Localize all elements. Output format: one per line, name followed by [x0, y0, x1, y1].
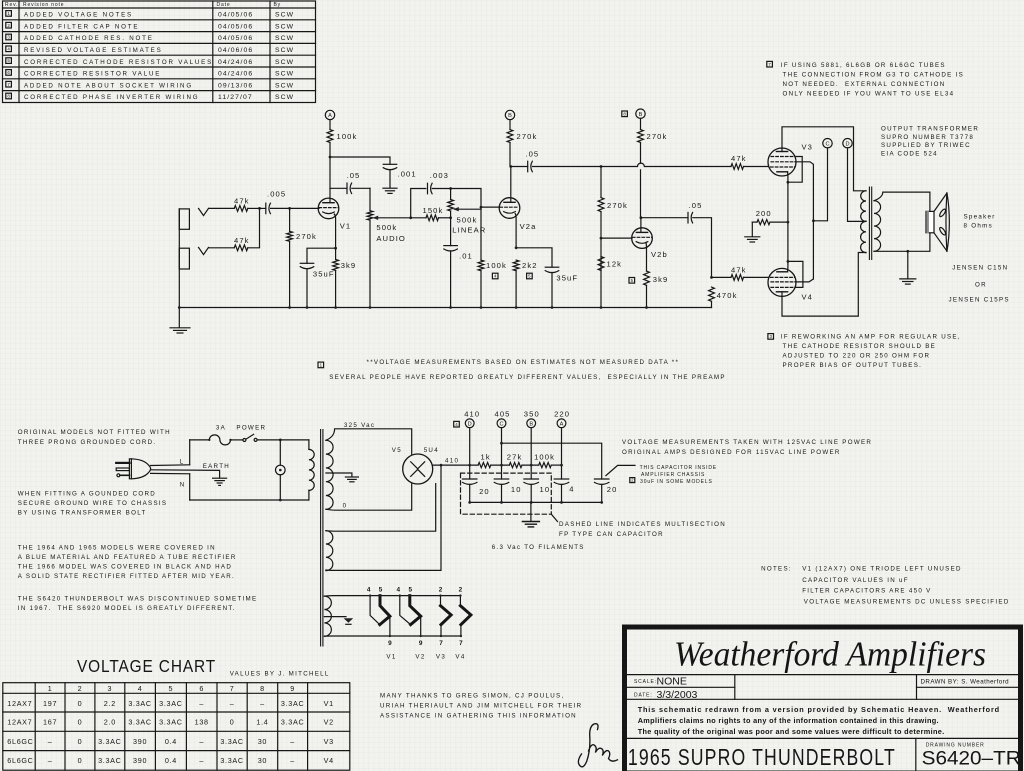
svg-text:500k: 500k: [376, 223, 397, 232]
svg-text:JENSEN C15N: JENSEN C15N: [952, 264, 1008, 271]
earth ground symbol: [213, 478, 227, 485]
svg-text:–: –: [230, 699, 235, 708]
resistor 200 (output cathode bias): [745, 209, 788, 242]
svg-text:N: N: [180, 481, 186, 488]
svg-text:3: 3: [107, 684, 112, 693]
capacitor 20uF (D): [462, 479, 489, 502]
svg-text:04/24/06: 04/24/06: [218, 71, 253, 78]
svg-text:410: 410: [464, 410, 480, 419]
wire V4 G2 jog: [795, 279, 813, 282]
6.3V center tap ground: [324, 616, 346, 618]
svg-text:3.3AC: 3.3AC: [128, 718, 151, 727]
capacitor 10uF (C): [494, 479, 521, 502]
svg-text:ADDED CATHODE RES. NOTE: ADDED CATHODE RES. NOTE: [24, 35, 154, 42]
svg-text:0: 0: [78, 699, 83, 708]
svg-text:THE 1964 AND 1965 MODELS WERE: THE 1964 AND 1965 MODELS WERE COVERED IN: [18, 545, 216, 552]
wire to 5V winding bottom: [326, 465, 441, 570]
svg-text:SCW: SCW: [275, 35, 294, 42]
svg-text:OR: OR: [975, 281, 987, 288]
svg-text:V3: V3: [324, 737, 334, 746]
heater V2 (pins 4,5,9): [400, 596, 411, 625]
wire to V1 grid: [290, 207, 319, 209]
svg-text:3.3AC: 3.3AC: [159, 718, 182, 727]
capacitor .003: [428, 171, 451, 194]
svg-text:3.3AC: 3.3AC: [98, 737, 121, 746]
ground (speaker return): [907, 251, 909, 278]
svg-text:SCW: SCW: [275, 23, 294, 30]
revision marker 4: [454, 421, 460, 427]
wire cord earth: [151, 470, 220, 478]
svg-text:2: 2: [78, 684, 83, 693]
svg-text:8 Ohms: 8 Ohms: [964, 223, 993, 230]
svg-text:270k: 270k: [296, 232, 317, 241]
svg-text:SCW: SCW: [275, 47, 294, 54]
svg-text:150k: 150k: [423, 206, 444, 215]
tube V2b (12AX7 triode): [632, 228, 668, 259]
svg-text:0: 0: [78, 718, 83, 727]
svg-text:V4: V4: [455, 653, 465, 660]
resistor 47k (V4 grid stopper): [712, 266, 769, 281]
svg-text:–: –: [290, 756, 295, 765]
svg-text:V2a: V2a: [520, 222, 537, 231]
resistor 27k: [507, 453, 523, 468]
svg-text:MANY THANKS TO GREG SIMON, CJ: MANY THANKS TO GREG SIMON, CJ POULUS,: [380, 692, 564, 699]
svg-text:This schematic redrawn from a: This schematic redrawn from a version pr…: [638, 705, 1000, 714]
wire V4 cathode: [787, 261, 789, 271]
svg-text:EARTH: EARTH: [203, 463, 230, 470]
speaker driver: [926, 211, 934, 232]
svg-text:47k: 47k: [731, 266, 747, 275]
svg-text:VOLTAGE CHART: VOLTAGE CHART: [77, 656, 216, 676]
svg-text:200: 200: [756, 209, 772, 218]
svg-text:6.3 Vac TO FILAMENTS: 6.3 Vac TO FILAMENTS: [492, 544, 585, 551]
svg-text:0: 0: [78, 756, 83, 765]
wire V3 cathode: [787, 172, 789, 182]
capacitor 35uF (V1 cathode): [300, 263, 334, 307]
svg-text:D: D: [845, 141, 849, 147]
power transformer HV secondary 325Vac: [326, 440, 333, 509]
ground bus (bottom rail): [179, 307, 711, 309]
svg-text:POWER: POWER: [236, 424, 266, 431]
wire screen rail down: [812, 221, 814, 279]
capacitor .05 (V2a coupling): [511, 150, 601, 172]
wire C to chassis cap: [502, 443, 602, 479]
svg-text:350: 350: [524, 410, 540, 419]
svg-text:3/3/2003: 3/3/2003: [657, 689, 698, 701]
wire 325Vac to rectifier plate: [326, 429, 412, 454]
resistor 100k: [534, 453, 555, 468]
svg-text:2: 2: [459, 587, 463, 594]
capacitor .001: [383, 164, 416, 187]
svg-text:CORRECTED CATHODE RESISTOR VAL: CORRECTED CATHODE RESISTOR VALUES: [24, 59, 213, 66]
svg-text:CAPACITOR VALUES IN uF: CAPACITOR VALUES IN uF: [802, 577, 909, 584]
svg-text:11/27/07: 11/27/07: [218, 94, 253, 101]
svg-text:325 Vac: 325 Vac: [344, 422, 375, 429]
wire input 1: [209, 207, 235, 209]
resistor 47k (input 1): [234, 197, 250, 212]
svg-text:410: 410: [445, 457, 459, 464]
heater V1 (pins 4,5,9): [370, 596, 380, 625]
wire V1 cathode: [334, 214, 335, 248]
heater V4 (pins 2,7): [459, 596, 461, 606]
svg-text:8: 8: [260, 684, 265, 693]
output transformer core: [869, 187, 871, 260]
svg-text:27k: 27k: [507, 453, 523, 462]
resistor 2k2 (V2a cathode) [5]: [513, 260, 537, 307]
power transformer core: [321, 430, 323, 646]
svg-text:SCW: SCW: [275, 12, 294, 19]
svg-text:Date: Date: [217, 2, 231, 8]
svg-text:VALUES BY J. MITCHELL: VALUES BY J. MITCHELL: [230, 671, 330, 678]
svg-text:20: 20: [607, 485, 618, 494]
svg-text:B: B: [508, 113, 512, 119]
wire V4 plate to transformer bottom: [782, 253, 866, 317]
note 1 (voltage measurements): [318, 362, 324, 368]
svg-text:A: A: [328, 113, 332, 119]
svg-text:THE CATHODE RESISTOR SHOULD BE: THE CATHODE RESISTOR SHOULD BE: [783, 343, 937, 350]
svg-text:B: B: [639, 112, 643, 118]
capacitor 35uF (V2a cathode): [516, 248, 578, 308]
svg-text:0.4: 0.4: [165, 756, 177, 765]
svg-text:6L6GC: 6L6GC: [7, 756, 33, 765]
resistor 150k: [411, 206, 451, 221]
wire to .001: [330, 157, 390, 164]
resistor 100k (V1 plate load): [327, 120, 357, 157]
svg-text:Rev.: Rev.: [5, 2, 18, 8]
svg-text:SCW: SCW: [275, 82, 294, 89]
svg-text:12AX7: 12AX7: [7, 718, 32, 727]
wire chain: [491, 464, 510, 466]
resistor 12k (divider lower): [598, 257, 622, 271]
svg-text:390: 390: [133, 737, 147, 746]
resistor 1k: [478, 453, 491, 468]
svg-text:6L6GC: 6L6GC: [7, 737, 33, 746]
svg-text:12k: 12k: [607, 260, 623, 269]
jack tip contact 2: [199, 247, 209, 254]
filter cap ground rail: [470, 501, 602, 503]
6.3V filament winding: [324, 596, 331, 636]
svg-text:9: 9: [419, 640, 423, 647]
svg-text:DASHED LINE INDICATES MULTISEC: DASHED LINE INDICATES MULTISECTION: [559, 521, 726, 528]
wire V3 plate to transformer top: [782, 127, 866, 191]
svg-text:390: 390: [133, 756, 147, 765]
capacitor 20uF (chassis) [2]: [594, 479, 617, 502]
svg-text:PROPER BIAS OF OUTPUT TUBES.: PROPER BIAS OF OUTPUT TUBES.: [783, 362, 923, 369]
svg-text:.005: .005: [267, 190, 286, 199]
svg-text:0: 0: [343, 502, 348, 509]
note 3 (cathode resistor rework): [768, 334, 774, 340]
svg-text:L: L: [180, 459, 185, 466]
svg-text:CORRECTED PHASE INVERTER WIRIN: CORRECTED PHASE INVERTER WIRING: [24, 94, 199, 101]
svg-text:The quality of the original wa: The quality of the original was poor and…: [638, 727, 945, 736]
resistor 3k9 (V1 cathode): [333, 248, 357, 307]
tube V1 (12AX7 triode): [318, 198, 351, 230]
svg-text:2k2: 2k2: [522, 261, 538, 270]
svg-text:1965 SUPRO THUNDERBOLT: 1965 SUPRO THUNDERBOLT: [628, 744, 896, 770]
svg-text:5: 5: [409, 587, 413, 594]
tube V4 (6L6GC pentode): [768, 268, 813, 301]
svg-text:9: 9: [290, 684, 295, 693]
wire rectifier output 410: [433, 464, 478, 466]
fuse 3A: [190, 439, 210, 441]
potentiometer 500k AUDIO: [367, 188, 411, 307]
wire to junction: [248, 207, 260, 209]
svg-text:DATE:: DATE:: [634, 692, 653, 698]
wire cathode rail: [787, 182, 789, 261]
wire V2a plate: [510, 167, 512, 203]
svg-text:35uF: 35uF: [313, 269, 335, 278]
potentiometer 500k LINEAR: [448, 189, 487, 246]
svg-text:5U4: 5U4: [424, 447, 439, 454]
svg-text:A SOLID STATE RECTIFIER FITTED: A SOLID STATE RECTIFIER FITTED AFTER MID…: [18, 573, 235, 580]
wire chain end: [551, 464, 561, 466]
svg-text:04/24/06: 04/24/06: [218, 59, 253, 66]
callout dashed line note: [551, 514, 557, 521]
wire wiper riser: [411, 189, 426, 218]
node B (V2b plate supply): [636, 109, 645, 118]
svg-text:A: A: [560, 422, 564, 428]
wire secondary top to speaker: [874, 192, 930, 211]
wire mains left verticals: [189, 440, 191, 500]
svg-text:THIS CAPACITOR INSIDE: THIS CAPACITOR INSIDE: [640, 465, 717, 471]
svg-text:NOT NEEDED. EXTERNAL CONNECTI: NOT NEEDED. EXTERNAL CONNECTION: [783, 81, 946, 88]
resistor 3k9 (V2b cathode) [5]: [644, 271, 669, 308]
svg-text:1k: 1k: [481, 453, 491, 462]
svg-text:CORRECTED RESISTOR VALUE: CORRECTED RESISTOR VALUE: [24, 71, 161, 78]
svg-text:.05: .05: [525, 150, 539, 159]
svg-text:SCW: SCW: [275, 59, 294, 66]
svg-text:URIAH THERIAULT AND JIM MITCHE: URIAH THERIAULT AND JIM MITCHELL FOR THE…: [380, 702, 582, 709]
node D (410V supply): [465, 419, 474, 428]
AC plug: [116, 459, 150, 479]
svg-text:4: 4: [367, 587, 371, 594]
svg-text:405: 405: [495, 410, 511, 419]
filament bus top: [324, 595, 460, 598]
output transformer secondary: [874, 201, 881, 252]
svg-text:47k: 47k: [234, 236, 250, 245]
svg-text:By: By: [274, 2, 282, 8]
svg-text:.05: .05: [689, 201, 703, 210]
node C (405V supply): [497, 419, 506, 428]
wire V4 G3-cathode loop: [788, 261, 803, 287]
svg-text:ONLY NEEDED IF YOU WANT TO USE: ONLY NEEDED IF YOU WANT TO USE EL34: [783, 90, 955, 97]
wire V2a out to V3 grid (hop over V2b plate line): [601, 163, 731, 166]
wire V3 G3-cathode loop: [788, 157, 802, 183]
wire input 2: [209, 247, 235, 249]
svg-text:REVISED VOLTAGE ESTIMATES: REVISED VOLTAGE ESTIMATES: [24, 47, 163, 54]
revision marker 8: [622, 111, 628, 117]
wire grid V2a: [481, 206, 500, 208]
svg-text:–: –: [199, 756, 204, 765]
ground (input jacks): [170, 308, 190, 333]
svg-text:VOLTAGE MEASUREMENTS DC UNLESS: VOLTAGE MEASUREMENTS DC UNLESS SPECIFIED: [804, 598, 1010, 605]
heater V3 (pins 2,7): [440, 596, 442, 606]
svg-text:4: 4: [138, 684, 143, 693]
wire chain: [522, 464, 539, 466]
pilot lamp: [279, 440, 281, 465]
svg-text:–: –: [48, 756, 53, 765]
svg-text:IF REWORKING AN AMP FOR REGULA: IF REWORKING AN AMP FOR REGULAR USE,: [781, 333, 961, 340]
wire V2b plate: [640, 218, 642, 233]
resistor 100k (V2a divider) [4]: [478, 260, 507, 307]
wire plate node: [329, 157, 331, 202]
jack tip contact 1: [199, 208, 209, 215]
svg-text:1: 1: [48, 684, 53, 693]
svg-text:–: –: [199, 737, 204, 746]
svg-text:V2: V2: [415, 653, 425, 660]
svg-text:VOLTAGE MEASUREMENTS TAKEN WIT: VOLTAGE MEASUREMENTS TAKEN WITH 125VAC L…: [622, 439, 872, 446]
svg-text:C: C: [825, 141, 829, 147]
node A (220V): [325, 110, 334, 119]
svg-text:3.3AC: 3.3AC: [220, 756, 243, 765]
svg-text:30uF IN SOME MODELS: 30uF IN SOME MODELS: [640, 479, 713, 485]
svg-text:7: 7: [439, 640, 443, 647]
wire mains bottom: [190, 499, 309, 501]
svg-text:5: 5: [379, 587, 383, 594]
svg-text:2.0: 2.0: [104, 718, 116, 727]
svg-text:10: 10: [540, 485, 551, 494]
svg-text:C: C: [499, 422, 503, 428]
HV center tap to ground: [326, 473, 352, 477]
svg-text:ASSISTANCE IN GATHERING THIS I: ASSISTANCE IN GATHERING THIS INFORMATION: [380, 712, 577, 719]
svg-text:THREE PRONG GROUNDED CORD.: THREE PRONG GROUNDED CORD.: [18, 439, 157, 446]
svg-text:FP TYPE CAN CAPACITOR: FP TYPE CAN CAPACITOR: [559, 531, 664, 538]
svg-text:2.2: 2.2: [104, 699, 116, 708]
wire C to screens: [813, 148, 827, 221]
svg-text:A BLUE MATERIAL AND FEATURED A: A BLUE MATERIAL AND FEATURED A TUBE RECT…: [18, 554, 237, 561]
wire input2 up to junction: [248, 208, 260, 247]
svg-text:04/06/06: 04/06/06: [218, 47, 253, 54]
svg-text:V1: V1: [324, 699, 334, 708]
resistor 47k (input 2): [234, 236, 250, 251]
capacitor .05 (V2b coupling): [641, 201, 712, 278]
note 7 (5881/6L6/EL34): [767, 61, 773, 67]
svg-text:V1 (12AX7) ONE TRIODE LEFT UNU: V1 (12AX7) ONE TRIODE LEFT UNUSED: [802, 566, 962, 573]
wire V3 G2 to screen rail: [795, 162, 813, 221]
svg-text:3A: 3A: [216, 424, 226, 431]
svg-text:35uF: 35uF: [556, 273, 578, 282]
svg-text:V3: V3: [802, 142, 814, 151]
svg-text:7: 7: [230, 684, 235, 693]
resistor 270k (V2a plate load): [507, 120, 537, 167]
dashed multisection can outline: [461, 473, 552, 514]
resistor 270k (divider upper): [598, 167, 628, 308]
wire secondary bottom: [874, 233, 930, 252]
svg-text:3k9: 3k9: [653, 275, 669, 284]
svg-text:Revision note: Revision note: [23, 2, 64, 8]
svg-text:ADDED VOLTAGE NOTES: ADDED VOLTAGE NOTES: [24, 12, 133, 19]
wire cord L: [151, 464, 190, 467]
input jack J1/J2 chassis line: [179, 209, 189, 308]
svg-text:20: 20: [479, 487, 490, 496]
svg-text:1.4: 1.4: [256, 718, 268, 727]
svg-text:Weatherford Amplifiers: Weatherford Amplifiers: [674, 635, 986, 674]
signature: [578, 724, 617, 767]
svg-text:ORIGINAL MODELS NOT FITTED WIT: ORIGINAL MODELS NOT FITTED WITH: [18, 429, 171, 436]
svg-text:AUDIO: AUDIO: [376, 234, 406, 243]
resistor 470k (V4 grid leak): [709, 287, 738, 308]
svg-text:V2: V2: [324, 718, 334, 727]
svg-text:SEVERAL PEOPLE HAVE REPORTED G: SEVERAL PEOPLE HAVE REPORTED GREATLY DIF…: [329, 374, 726, 381]
wire .003 junction to V2a grid riser: [451, 189, 481, 261]
svg-text:–: –: [48, 737, 53, 746]
svg-text:ORIGINAL AMPS DESIGNED FOR 115: ORIGINAL AMPS DESIGNED FOR 115VAC LINE P…: [622, 449, 841, 456]
tube V2a (12AX7 triode): [499, 198, 536, 231]
resistor 270k (V1 grid): [287, 208, 317, 307]
svg-text:BY USING TRANSFORMER BOLT: BY USING TRANSFORMER BOLT: [18, 510, 147, 517]
tube V5 (5U4 rectifier): [403, 454, 433, 484]
svg-text:0.4: 0.4: [165, 737, 177, 746]
svg-text:V4: V4: [324, 756, 334, 765]
svg-text:270k: 270k: [517, 132, 538, 141]
svg-text:SCALE:: SCALE:: [634, 679, 657, 685]
svg-text:S6420–TR: S6420–TR: [922, 749, 1021, 770]
svg-text:30: 30: [258, 737, 267, 746]
svg-text:0: 0: [78, 737, 83, 746]
wire HV bottom to rectifier plate 2: [326, 484, 412, 510]
wire divider tap to V2b grid: [601, 237, 632, 239]
node D (410V): [843, 139, 852, 148]
wire 5V winding top to filament: [326, 484, 436, 532]
svg-text:04/05/06: 04/05/06: [218, 12, 253, 19]
svg-text:.01: .01: [459, 251, 473, 260]
svg-text:167: 167: [43, 718, 57, 727]
svg-text:DRAWN BY: S. Weatherford: DRAWN BY: S. Weatherford: [921, 679, 1010, 686]
svg-text:NONE: NONE: [657, 676, 687, 688]
svg-text:SECURE GROUND WIRE TO CHASSIS: SECURE GROUND WIRE TO CHASSIS: [18, 500, 168, 507]
svg-text:V1: V1: [340, 221, 352, 230]
wire cathode to 35uF: [307, 248, 336, 263]
svg-text:3.3AC: 3.3AC: [220, 737, 243, 746]
svg-text:3.3AC: 3.3AC: [281, 699, 304, 708]
speaker cone: [934, 193, 947, 251]
svg-text:Amplifiers claims no rights to: Amplifiers claims no rights to any of th…: [638, 716, 939, 725]
svg-text:SCW: SCW: [275, 71, 294, 78]
svg-text:V4: V4: [802, 292, 814, 301]
svg-text:500k: 500k: [457, 215, 478, 224]
svg-text:WHEN FITTING A GOUNDED CORD: WHEN FITTING A GOUNDED CORD: [18, 491, 156, 498]
svg-text:THE S6420 THUNDERBOLT WAS DISC: THE S6420 THUNDERBOLT WAS DISCONTINUED S…: [18, 596, 258, 603]
node C (405V): [823, 139, 832, 148]
svg-text:SUPRO NUMBER T3778: SUPRO NUMBER T3778: [881, 134, 974, 141]
node A (220V supply): [557, 419, 566, 428]
output transformer T3778 primary: [861, 191, 866, 222]
filament bus bottom: [324, 635, 461, 637]
svg-text:470k: 470k: [717, 291, 738, 300]
svg-text:.003: .003: [430, 171, 449, 180]
svg-text:THE 1966 MODEL WAS COVERED IN: THE 1966 MODEL WAS COVERED IN BLACK AND …: [18, 564, 232, 571]
svg-text:04/05/06: 04/05/06: [218, 23, 253, 30]
svg-text:Speaker: Speaker: [964, 213, 996, 220]
svg-text:7: 7: [459, 640, 463, 647]
svg-text:.001: .001: [398, 169, 417, 178]
revision table: [3, 1, 316, 103]
resistor 47k (V3 grid stopper): [731, 154, 768, 169]
node risers D C B A: [469, 428, 471, 479]
svg-text:OUTPUT TRANSFORMER: OUTPUT TRANSFORMER: [881, 126, 979, 133]
svg-text:ADDED FILTER CAP NOTE: ADDED FILTER CAP NOTE: [24, 23, 139, 30]
switch POWER: [231, 439, 243, 441]
svg-text:V2b: V2b: [651, 250, 668, 259]
ground (filter): [530, 502, 532, 521]
svg-text:4: 4: [569, 485, 574, 494]
svg-text:B: B: [529, 422, 533, 428]
svg-text:V5: V5: [392, 447, 402, 454]
svg-text:2: 2: [439, 587, 443, 594]
svg-text:47k: 47k: [234, 197, 250, 206]
capacitor .005: [260, 190, 290, 214]
svg-text:47k: 47k: [731, 154, 747, 163]
